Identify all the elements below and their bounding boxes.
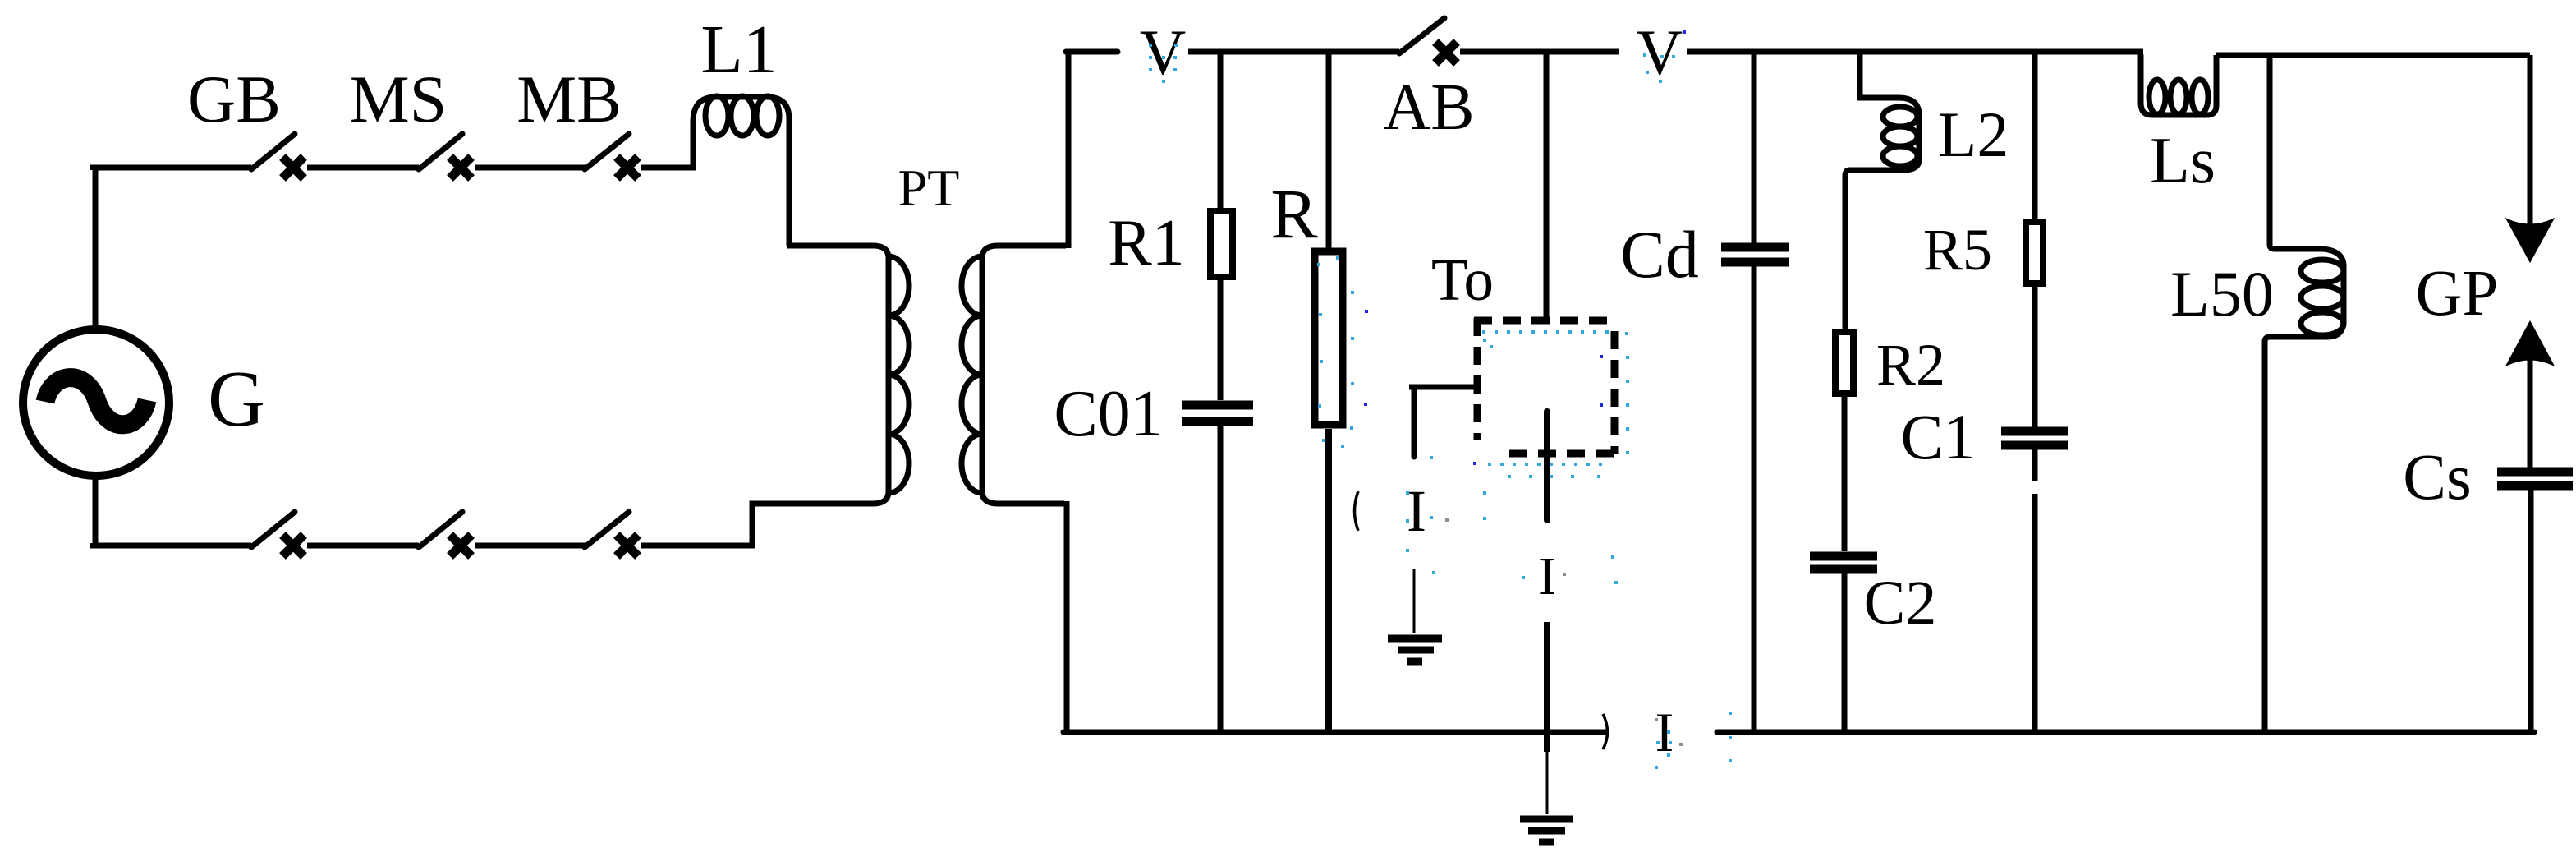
svg-text:MB: MB <box>517 62 622 136</box>
inductor L1 <box>693 96 789 170</box>
capacitor Cd <box>1721 52 1789 732</box>
current probe arc bottom <box>1603 714 1608 749</box>
PT primary winding <box>873 246 889 258</box>
wire MS-MB <box>475 165 585 171</box>
wire PT primary bottom to step <box>752 504 873 546</box>
svg-text:C2: C2 <box>1864 569 1937 638</box>
wire PT secondary bottom to bottom bus <box>998 501 1067 732</box>
wire right branch vertical <box>2528 55 2533 234</box>
AC source G <box>23 329 169 476</box>
wire voltage probe into To <box>1409 385 1474 390</box>
wire source bottom lead <box>93 476 99 546</box>
capacitor Cs <box>2497 472 2573 732</box>
svg-text:G: G <box>208 355 265 443</box>
PT secondary winding <box>982 246 998 258</box>
svg-text:PT: PT <box>898 159 960 217</box>
wire To inner conductor <box>1544 412 1550 520</box>
wire bottom bus left segment <box>1063 730 1606 735</box>
device To dashed box <box>1474 318 1617 454</box>
svg-text:R5: R5 <box>1923 217 1992 283</box>
wire bottom MB-step <box>641 543 755 549</box>
wire top bus V to AB <box>1188 49 1399 55</box>
current probe arc left <box>1355 491 1359 531</box>
wire To-branch to ground <box>1544 622 1550 752</box>
svg-text:L50: L50 <box>2170 258 2274 329</box>
wire bottom bus right segment <box>1717 730 2534 735</box>
wire GB-MS <box>307 165 419 171</box>
switch MS bottom pole <box>419 512 471 556</box>
wire bottom MS-MB <box>475 543 585 549</box>
wire AB to To junction <box>1460 49 1619 55</box>
switch GB <box>251 134 304 178</box>
svg-text:Ls: Ls <box>2150 125 2216 197</box>
inductor L50 <box>2265 55 2344 732</box>
switch GB bottom pole <box>251 512 304 556</box>
wire MB-L1 <box>641 165 696 171</box>
wire source top lead <box>93 168 99 329</box>
svg-text:I: I <box>1655 701 1674 763</box>
artifact dots around resistor R <box>1317 256 1368 448</box>
wire To branch vertical <box>1544 52 1550 319</box>
ground To-branch <box>1520 819 1573 842</box>
switch AB <box>1399 18 1457 63</box>
capacitor C1 <box>2001 431 2068 732</box>
transformer PT <box>873 246 998 504</box>
spark gap GP upper arrow <box>2507 219 2553 261</box>
svg-text:Cs: Cs <box>2403 442 2471 514</box>
svg-text:R: R <box>1270 174 1318 253</box>
svg-text:V: V <box>1140 16 1186 88</box>
capacitor C01 <box>1182 405 1253 732</box>
artifact dots near V node 2 <box>1643 30 1686 83</box>
wire bottom GB-MS <box>307 543 419 549</box>
wire PT secondary top to V bus <box>998 52 1068 248</box>
switch MB <box>585 134 638 178</box>
svg-text:L2: L2 <box>1938 99 2009 170</box>
artifact dots near I bottom-bus <box>1655 712 1732 769</box>
resistor R5 <box>2026 52 2043 427</box>
svg-text:I: I <box>1407 478 1426 544</box>
resistor R2 <box>1835 332 1853 551</box>
spark gap GP lower arrow <box>2507 322 2553 365</box>
wire top bus right segment <box>2216 53 2530 58</box>
svg-text:MS: MS <box>350 62 448 136</box>
svg-text:C01: C01 <box>1054 378 1163 450</box>
svg-text:V: V <box>1637 16 1683 88</box>
artifact dots near I To-branch <box>1483 491 1618 584</box>
resistor R <box>1315 52 1343 732</box>
wire top bus segment left of V node <box>1066 49 1118 55</box>
wire L1 to PT primary <box>787 115 873 246</box>
ground probe-left <box>1388 638 1442 661</box>
artifact dots around To box <box>1473 330 1629 478</box>
resistor R1 <box>1210 52 1233 400</box>
svg-text:L1: L1 <box>700 12 777 88</box>
svg-text:I: I <box>1538 546 1556 606</box>
switch MS <box>419 134 471 178</box>
wire top bus V2 to Ls <box>1687 49 2143 55</box>
wire bottom-left horizontal <box>93 543 251 546</box>
svg-text:C1: C1 <box>1900 401 1975 472</box>
svg-text:GP: GP <box>2416 258 2499 329</box>
switch MB bottom pole <box>585 512 638 556</box>
inductor L2 <box>1845 52 1919 329</box>
capacitor C2 <box>1810 556 1877 732</box>
inductor Ls <box>2141 52 2216 115</box>
wire GP to Cs <box>2528 329 2533 468</box>
svg-text:AB: AB <box>1383 71 1474 144</box>
svg-text:R2: R2 <box>1876 332 1945 398</box>
svg-text:Cd: Cd <box>1620 217 1699 292</box>
wire probe-left to ground <box>1413 569 1416 633</box>
artifact dots near V node 1 <box>1149 44 1178 83</box>
svg-text:R1: R1 <box>1108 207 1184 279</box>
wire top-left horizontal <box>93 168 251 170</box>
svg-text:GB: GB <box>187 62 281 136</box>
svg-text:To: To <box>1431 246 1494 313</box>
artifact dots near I probe-left <box>1406 456 1449 574</box>
